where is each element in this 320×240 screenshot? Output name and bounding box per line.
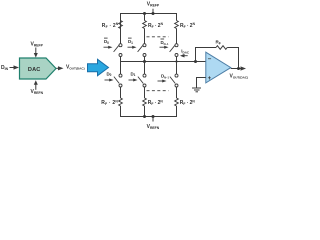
wire col2 to bottom bus [144, 106, 146, 117]
wire col3 midbus to bottom switch [176, 62, 178, 75]
svg-text:RF: RF [216, 40, 221, 46]
wire VREFP stub [152, 9, 154, 14]
svg-text:VREFP: VREFP [31, 42, 44, 48]
switch D1 bottom col2 [138, 74, 146, 87]
wire col1 resistor to switch [120, 29, 122, 44]
switch D0bar select arrow [104, 46, 113, 49]
resistor top col2 [143, 21, 147, 29]
wire col2 switch to bottom resistor [144, 87, 146, 98]
wire col2 switch to midbus [144, 57, 146, 62]
svg-text:D0: D0 [107, 71, 112, 77]
wire RF to output [227, 48, 238, 69]
svg-text:RF ∙ 2N: RF ∙ 2N [180, 22, 196, 29]
resistor top col3 [175, 21, 179, 29]
top bus VREFP [121, 14, 177, 44]
op-amp U2 [206, 52, 231, 83]
big transfer arrow [88, 59, 109, 75]
svg-text:IDAC: IDAC [181, 49, 190, 55]
wire col2 midbus to bottom switch [144, 62, 146, 75]
switch D1bar top col2 [138, 44, 146, 57]
svg-text:D1: D1 [131, 71, 136, 77]
node junction dot col2/bottombus [143, 115, 146, 118]
svg-text:DN–1: DN–1 [161, 40, 169, 46]
svg-text:+: + [208, 76, 212, 82]
switch DN-1bar label [161, 39, 169, 46]
svg-text:RF ∙ 2N: RF ∙ 2N [148, 99, 164, 106]
svg-text:D1: D1 [128, 39, 133, 45]
wire col3 resistor to switch [176, 29, 178, 44]
resistor RF feedback branch [196, 48, 217, 62]
mid bus IDAC summing wire [121, 61, 206, 63]
wire col2 top [144, 14, 146, 21]
wire VREFN stub [152, 117, 154, 122]
switch DN-1 select arrow [158, 80, 167, 83]
wire DAC output arrow [57, 66, 64, 70]
svg-text:DIN: DIN [1, 65, 9, 71]
node junction dot output [237, 67, 240, 70]
switch D1bar label [128, 38, 133, 45]
svg-text:DAC: DAC [28, 67, 41, 73]
wire dashed continuation (top) [147, 36, 169, 38]
node junction dot inverting input [194, 60, 197, 63]
resistor bottom col1 [119, 98, 123, 106]
wire col2 resistor to switch [144, 29, 146, 44]
switch DN-1 bottom col3 [170, 74, 178, 87]
switch DN-1bar top col3 [170, 44, 178, 57]
node junction dot VREFN/bottombus [152, 115, 155, 118]
svg-text:RF ∙ 2N: RF ∙ 2N [148, 22, 164, 29]
switch D0 bottom col1 [114, 74, 122, 87]
node junction dot col2/midbus [143, 60, 146, 63]
svg-text:VREFN: VREFN [147, 124, 160, 130]
wire DIN input arrow [10, 65, 20, 69]
wire IDAC current arrow [180, 54, 188, 58]
svg-text:RF ∙ 2N: RF ∙ 2N [102, 22, 119, 29]
svg-text:DN–1: DN–1 [161, 74, 169, 80]
svg-text:VOUT(DAC): VOUT(DAC) [230, 73, 249, 79]
wire col1 midbus to bottom switch [120, 62, 122, 75]
resistor RF [216, 46, 227, 50]
wire VREFN arrow into DAC [34, 80, 38, 90]
node junction dot VREFP/topbus [152, 12, 155, 15]
wire col3 switch to bottom resistor [176, 87, 178, 98]
switch D0bar label [104, 38, 109, 45]
ground [192, 88, 201, 92]
svg-text:–: – [208, 56, 212, 63]
svg-text:RF ∙ 2N: RF ∙ 2N [180, 99, 196, 106]
switch DN-1bar select arrow [160, 46, 169, 49]
svg-text:VREFN: VREFN [31, 89, 44, 95]
svg-text:VOUT(DAC): VOUT(DAC) [66, 64, 85, 70]
switch D0bar top col1 [114, 44, 122, 57]
switch D0 select arrow [105, 79, 114, 82]
wire col1 switch to bottom resistor [120, 87, 122, 98]
svg-text:RF ∙ 2N: RF ∙ 2N [101, 99, 118, 106]
wire non-inverting input to ground [197, 78, 206, 88]
DAC block U1 [20, 58, 57, 79]
wire output arrow [241, 66, 247, 70]
svg-text:VREFP: VREFP [147, 2, 160, 8]
switch D1 select arrow [129, 79, 138, 82]
wire dashed continuation (bottom) [147, 90, 169, 92]
wire op-amp output [231, 68, 241, 70]
wire col1 switch to midbus [120, 57, 122, 62]
resistor bottom col3 [175, 98, 179, 106]
wire col3 switch to midbus [176, 57, 178, 62]
resistor top col1 [119, 21, 123, 29]
wire VREFP arrow into DAC [34, 48, 38, 58]
resistor bottom col2 [143, 98, 147, 106]
node junction dot col3/midbus [175, 60, 177, 62]
node junction dot col2/topbus [143, 12, 146, 15]
bottom bus VREFN [121, 106, 177, 117]
svg-text:D0: D0 [104, 39, 109, 45]
switch D1bar select arrow [128, 46, 137, 49]
